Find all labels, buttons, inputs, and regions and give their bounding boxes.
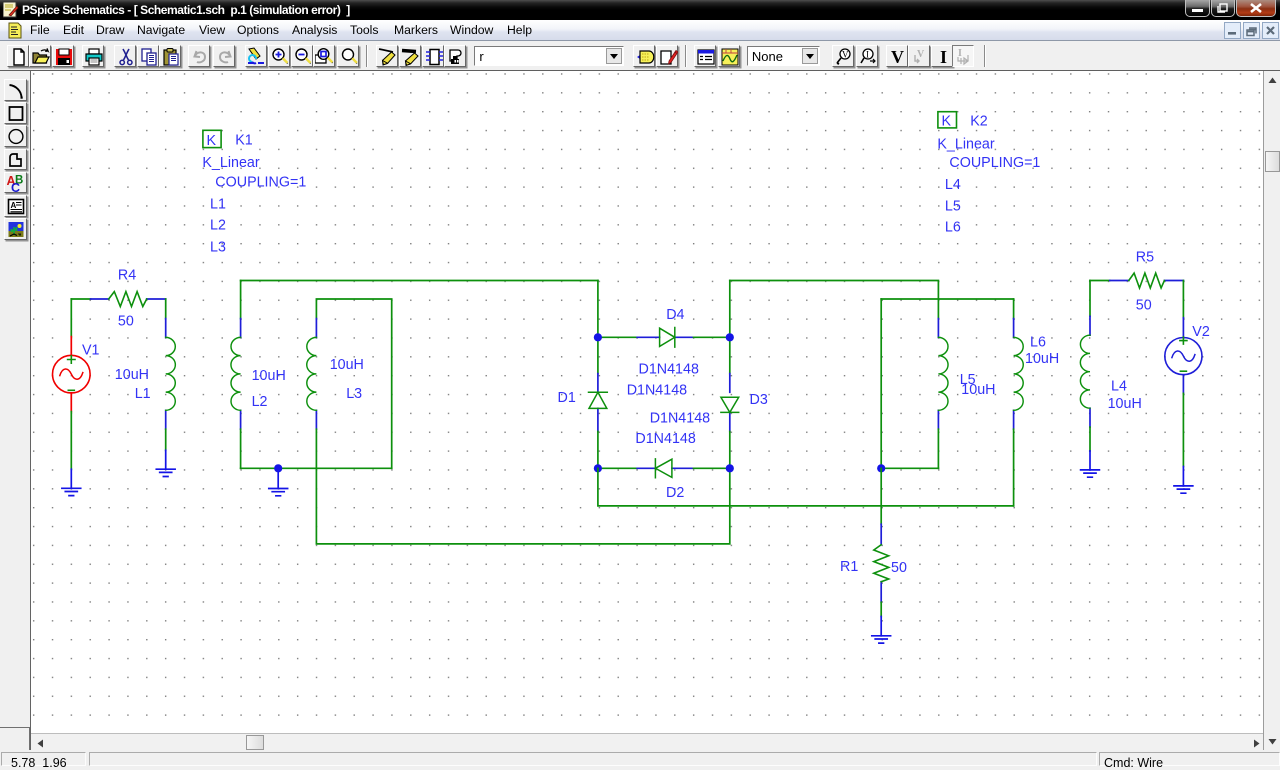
wire bottom left rail [241, 467, 392, 469]
wire L6 top vertical [1013, 299, 1015, 319]
wire V1 bottom to ground [70, 412, 72, 470]
coupling symbol K2 [938, 112, 957, 130]
svg-text:L5: L5 [945, 198, 961, 214]
wire L3 top loop [316, 299, 391, 468]
svg-text:D1N4148: D1N4148 [639, 362, 699, 378]
left palette [0, 727, 30, 751]
svg-text:R5: R5 [1136, 250, 1154, 266]
svg-text:L3: L3 [346, 386, 362, 402]
horizontal scrollbar [31, 733, 1263, 751]
svg-text:I: I [940, 47, 947, 67]
wire right box left vertical [880, 299, 882, 468]
ground at left rail [269, 468, 288, 496]
svg-text:K: K [942, 114, 952, 130]
svg-text:D1N4148: D1N4148 [627, 383, 687, 399]
resistor R1 [874, 524, 889, 602]
wire right box top [881, 298, 1013, 300]
resistor R5 [1110, 273, 1184, 288]
svg-text:L1: L1 [135, 386, 151, 402]
svg-text:V2: V2 [1192, 324, 1210, 340]
wire L5 bottom vertical [937, 429, 939, 468]
svg-text:D1N4148: D1N4148 [650, 411, 710, 427]
svg-text:L2: L2 [252, 394, 268, 410]
wire L1 to ground [165, 429, 167, 450]
toolbar [0, 41, 1280, 71]
wire V2 loop top-left corner [1090, 280, 1110, 282]
svg-text:D2: D2 [666, 485, 684, 501]
status bar [0, 750, 1280, 765]
svg-text:D1N4148: D1N4148 [635, 431, 695, 447]
svg-text:L1: L1 [210, 196, 226, 212]
wire bridge top-left vertical [597, 281, 599, 338]
svg-text:L6: L6 [1030, 335, 1046, 351]
svg-text:10uH: 10uH [961, 382, 995, 398]
svg-text:50: 50 [1136, 297, 1152, 313]
junction right group [877, 464, 885, 472]
junction bridge top-right [726, 333, 734, 341]
diode D4 [598, 328, 730, 348]
voltage source V2 [1165, 318, 1202, 394]
menu bar [0, 20, 1280, 41]
svg-text:V: V [842, 49, 849, 59]
svg-text:50: 50 [891, 560, 907, 576]
wire L5 bottom to junction [881, 467, 938, 469]
svg-text:L2: L2 [210, 218, 226, 234]
wire top rail left (L2 to bridge) [241, 280, 598, 282]
wire L2 top vertical [240, 281, 242, 319]
svg-text:COUPLING=1: COUPLING=1 [949, 155, 1040, 171]
voltage source V1 [53, 337, 91, 412]
wire R5 to V2 [1182, 281, 1184, 318]
svg-text:V1: V1 [82, 343, 100, 359]
svg-text:V: V [917, 49, 925, 60]
svg-text:L6: L6 [945, 220, 961, 236]
wire L6 bottom vertical [1013, 429, 1015, 506]
resistor R4 [91, 292, 166, 307]
coupling symbol K1 [203, 130, 221, 149]
svg-text:D1: D1 [558, 390, 576, 406]
svg-text:K2: K2 [970, 114, 988, 130]
svg-text:R1: R1 [840, 559, 858, 575]
inductor L3 [307, 319, 317, 430]
wire L4 to ground [1089, 427, 1091, 451]
svg-text:10uH: 10uH [330, 357, 364, 373]
title bar [0, 0, 1280, 20]
junction at left rail ground [274, 464, 282, 472]
inductor L5 [938, 319, 948, 430]
inductor L1 [166, 319, 176, 430]
wire L2 bottom vertical [240, 429, 242, 468]
svg-text:K: K [207, 133, 217, 149]
svg-text:50: 50 [118, 314, 134, 330]
ground under R1 [872, 617, 891, 644]
svg-text:10uH: 10uH [115, 367, 149, 383]
svg-text:K_Linear: K_Linear [937, 137, 994, 153]
junction bridge bottom-right [726, 464, 734, 472]
wire R4 right corner down to L1 [165, 299, 167, 319]
wire junction down to R1 [880, 468, 882, 524]
wire L4 top vertical [1089, 281, 1091, 317]
svg-text:R4: R4 [118, 268, 136, 284]
wire bridge top-right vertical [729, 281, 731, 338]
junction bridge top-left [594, 333, 602, 341]
wire R1 to ground [880, 602, 882, 616]
wire V1 top vertical [70, 299, 72, 337]
diode D1 [589, 337, 608, 468]
vertical scrollbar [1263, 71, 1280, 750]
junction bridge bottom-left [594, 464, 602, 472]
svg-text:A: A [11, 201, 17, 210]
inductor L2 [231, 319, 241, 430]
svg-text:K1: K1 [235, 133, 253, 149]
svg-text:I: I [866, 49, 869, 59]
wire top rail right (bridge to L5) [730, 281, 939, 319]
ground under V2 [1174, 467, 1193, 494]
svg-text:L4: L4 [1111, 378, 1127, 394]
svg-text:10uH: 10uH [1025, 351, 1059, 367]
svg-text:V: V [891, 47, 904, 67]
ground under V1 [62, 469, 81, 495]
svg-text:10uH: 10uH [1108, 396, 1142, 412]
svg-text:COUPLING=1: COUPLING=1 [215, 174, 306, 190]
wire bridge bottom-left down and long bottom rail [598, 468, 1014, 506]
svg-text:L4: L4 [945, 177, 961, 193]
inductor L6 [1014, 319, 1024, 430]
wire V2 bottom to ground [1182, 393, 1184, 466]
svg-text:K_Linear: K_Linear [202, 155, 259, 171]
svg-text:D3: D3 [750, 392, 768, 408]
svg-text:10uH: 10uH [252, 368, 286, 384]
inductor L4 [1080, 316, 1090, 427]
wire L3 bottom long run to bridge right [316, 429, 729, 544]
svg-text:L3: L3 [210, 240, 226, 256]
wire top-left from V1 corner to R4 [71, 298, 90, 300]
ground under L4 [1081, 451, 1100, 477]
ground under L1 [156, 450, 175, 476]
svg-text:D4: D4 [666, 307, 684, 323]
diode D3 [721, 337, 739, 468]
svg-text:C: C [11, 181, 20, 193]
diode D2 [598, 459, 730, 478]
